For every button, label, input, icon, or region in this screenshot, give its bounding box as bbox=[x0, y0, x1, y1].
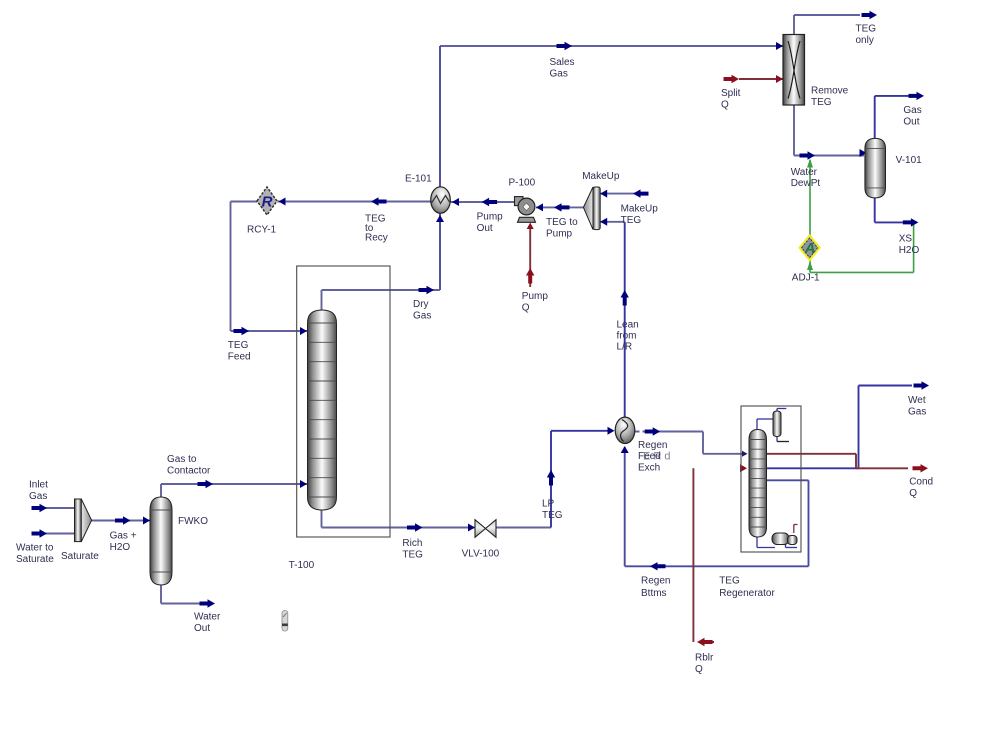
svg-text:TEGFeed: TEGFeed bbox=[228, 340, 251, 362]
svg-text:A: A bbox=[804, 240, 816, 257]
svg-text:V-101: V-101 bbox=[896, 155, 923, 166]
svg-text:Water toSaturate: Water toSaturate bbox=[16, 543, 54, 565]
svg-text:ADJ-1: ADJ-1 bbox=[792, 273, 820, 284]
svg-text:RichTEG: RichTEG bbox=[402, 538, 423, 560]
svg-text:RCY-1: RCY-1 bbox=[247, 225, 277, 236]
svg-text:R: R bbox=[262, 194, 273, 211]
svg-text:P-100: P-100 bbox=[509, 178, 536, 189]
svg-text:T-100: T-100 bbox=[289, 560, 315, 571]
svg-text:InletGas: InletGas bbox=[29, 480, 48, 502]
svg-text:TEGonly: TEGonly bbox=[856, 24, 877, 46]
svg-text:WetGas: WetGas bbox=[908, 395, 926, 417]
svg-text:MakeUp: MakeUp bbox=[582, 171, 620, 182]
svg-text:E-101: E-101 bbox=[405, 174, 432, 185]
svg-text:GasOut: GasOut bbox=[903, 105, 921, 127]
svg-text:VLV-100: VLV-100 bbox=[462, 549, 500, 560]
svg-text:E R d: E R d bbox=[643, 451, 671, 463]
svg-text:WaterDewPt: WaterDewPt bbox=[791, 167, 821, 189]
svg-text:FWKO: FWKO bbox=[178, 516, 208, 527]
svg-text:RegenBttms: RegenBttms bbox=[641, 576, 670, 600]
svg-text:Saturate: Saturate bbox=[61, 551, 99, 562]
